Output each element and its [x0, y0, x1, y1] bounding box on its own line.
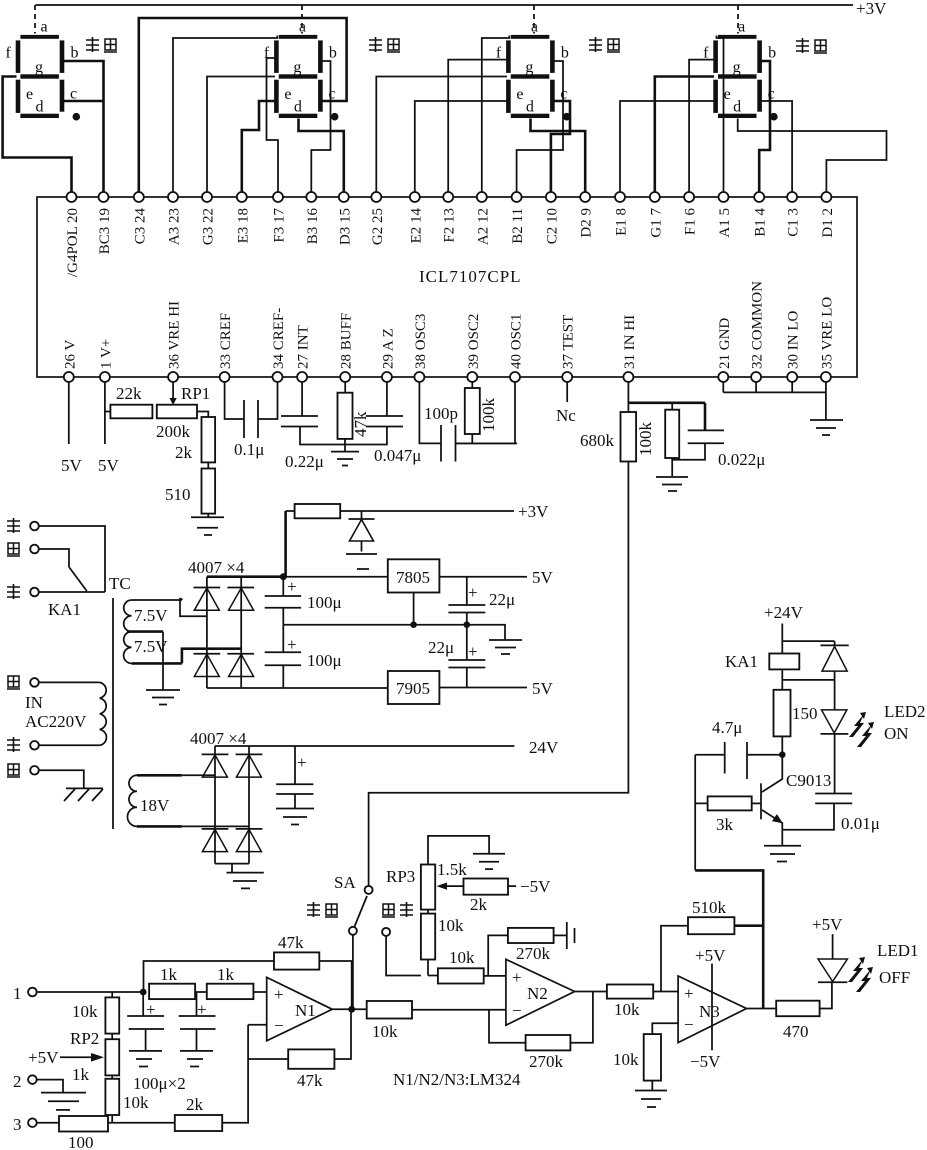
svg-text:5V: 5V: [61, 456, 83, 475]
potentiometer RP3: [386, 836, 489, 910]
+24V supply label: [764, 603, 804, 654]
wire pin24 to DS2 seg c: [139, 18, 347, 192]
capacitor 100u x2 second: [133, 992, 216, 1093]
svg-text:N1/N2/N3:LM324: N1/N2/N3:LM324: [393, 1070, 521, 1089]
wire pin22 to DS2 seg g: [207, 77, 275, 193]
svg-text:100μ: 100μ: [307, 593, 342, 612]
ground below zener: [346, 554, 377, 569]
svg-text:0.1μ: 0.1μ: [234, 440, 264, 459]
IC U1 bottom pin 35 (VRE LO): [819, 297, 835, 382]
svg-text:TC: TC: [109, 574, 131, 593]
IC U1 bottom pin 36 (VRE HI): [167, 301, 183, 382]
wire pin1 V+ down: [98, 382, 120, 475]
svg-text:+: +: [287, 635, 297, 654]
LED1 lightning arrows: [848, 957, 873, 992]
svg-text:D2 9: D2 9: [579, 208, 595, 238]
IC U1 top pin 19 (BC3): [97, 192, 113, 254]
op-amp N2: [506, 959, 575, 1025]
IC U1 top pin 17 (F3): [272, 192, 288, 243]
svg-text:+: +: [297, 753, 307, 772]
wire pin26 V- down: [61, 382, 83, 475]
svg-text:B3 16: B3 16: [305, 208, 321, 245]
svg-text:N2: N2: [527, 984, 548, 1003]
capacitor 0.022u: [672, 403, 765, 469]
svg-text:4.7μ: 4.7μ: [712, 718, 742, 737]
wire DS3 seg d to pin9: [531, 119, 586, 193]
capacitor 0.22u: [281, 382, 345, 471]
svg-text:10k: 10k: [123, 1093, 149, 1112]
svg-text:D3 15: D3 15: [337, 208, 353, 245]
chassis ground symbol: [64, 788, 103, 801]
svg-text:+5V: +5V: [695, 946, 726, 965]
svg-text:E1 8: E1 8: [614, 208, 630, 236]
resistor 10k below RP3: [421, 910, 464, 976]
potentiometer RP1: [156, 382, 210, 441]
svg-text:100: 100: [68, 1133, 94, 1150]
svg-text:N1: N1: [295, 1001, 316, 1020]
IC U1 top pin 7 (G1): [648, 192, 664, 238]
flyback diode VD: [782, 641, 848, 680]
IC U1 bottom pin 28 (BUFF): [339, 313, 355, 382]
svg-text:3k: 3k: [716, 815, 734, 834]
resistor 47k on pin28 BUFF: [338, 382, 371, 452]
resistor 22k: [105, 384, 152, 418]
svg-text:510: 510: [165, 485, 191, 504]
svg-text:−5V: −5V: [690, 1052, 721, 1071]
svg-text:RP1: RP1: [181, 384, 210, 403]
resistor 270k bottom N2: [489, 992, 593, 1072]
IC U1 bottom pin 27 (INT): [296, 325, 312, 382]
wire pin40 OSC1 down: [456, 382, 516, 443]
IC U1 top pin 25 (G2): [370, 192, 386, 245]
ground below 100k IN HI: [656, 477, 688, 491]
svg-text:2k: 2k: [175, 443, 193, 462]
resistor 270k top N2: [488, 928, 567, 976]
resistor 470: [747, 982, 832, 1041]
svg-text:150: 150: [792, 704, 818, 723]
LED1: [812, 915, 919, 987]
svg-text:KA1: KA1: [725, 652, 758, 671]
svg-text:38 OSC3: 38 OSC3: [413, 314, 429, 369]
terminal 1: [13, 984, 143, 1003]
svg-text:+: +: [468, 642, 478, 661]
IC U1 bottom pin 39 (OSC2): [466, 314, 482, 382]
resistor 1k second: [195, 965, 267, 999]
wire DS4 seg c to pin3: [761, 101, 792, 192]
LED2 lightning arrows: [849, 712, 874, 747]
resistor 2k (vertical): [175, 412, 215, 463]
resistor 100k oscillator: [465, 382, 498, 443]
svg-text:/G4POL 20: /G4POL 20: [65, 208, 81, 277]
svg-text:B2 11: B2 11: [510, 208, 526, 244]
wire DS1 seg g to pin20: [3, 77, 72, 193]
LED2: [821, 680, 926, 794]
IC U1 top pin 22 (G3): [201, 192, 217, 245]
svg-text:+: +: [197, 1000, 207, 1019]
resistor 3k: [695, 755, 761, 834]
ground above RP3: [473, 854, 505, 869]
ground below bridge B2: [227, 864, 264, 889]
svg-text:24V: 24V: [529, 738, 559, 757]
svg-text:510k: 510k: [692, 898, 727, 917]
regulator 7805: [283, 559, 553, 624]
label shiwei: [589, 37, 620, 52]
svg-text:+: +: [512, 968, 522, 987]
svg-text:29 A Z: 29 A Z: [380, 328, 396, 369]
svg-text:100μ×2: 100μ×2: [133, 1074, 186, 1093]
mid rail common: [283, 621, 505, 640]
svg-text:KA1: KA1: [48, 600, 81, 619]
terminal zhong (neutral): [7, 737, 39, 752]
svg-text:27 INT: 27 INT: [296, 325, 312, 369]
svg-text:10k: 10k: [72, 1002, 98, 1021]
svg-text:OFF: OFF: [879, 968, 910, 987]
svg-text:31 IN HI: 31 IN HI: [622, 315, 638, 369]
svg-text:100p: 100p: [424, 404, 458, 423]
IC U1 top pin 16 (B3): [305, 192, 321, 244]
resistor 510 (vertical): [165, 462, 215, 517]
svg-text:+3V: +3V: [518, 502, 549, 521]
svg-text:+3V: +3V: [856, 0, 887, 18]
svg-text:A1 5: A1 5: [717, 208, 733, 238]
resistor 10k N1 to N2: [367, 1001, 506, 1041]
svg-text:47k: 47k: [351, 411, 370, 437]
IC U1 bottom pin 33 (CREF): [218, 313, 234, 382]
svg-text:+5V: +5V: [28, 1048, 59, 1067]
zener rail resistor to +3V: [286, 502, 549, 577]
svg-text:10k: 10k: [372, 1022, 398, 1041]
svg-text:26 V: 26 V: [62, 340, 78, 369]
RP3 wiper with resistor 2k: [437, 877, 552, 914]
ground below 47k: [331, 452, 359, 466]
svg-text:F2 13: F2 13: [442, 208, 458, 243]
terminal 2 with ground: [13, 1072, 86, 1110]
svg-text:IN: IN: [25, 693, 43, 712]
svg-text:100k: 100k: [636, 422, 655, 457]
svg-text:47k: 47k: [297, 1071, 323, 1090]
resistor 100: [59, 1116, 175, 1150]
junction node bridge output: [280, 573, 287, 580]
label baiwei: [369, 37, 400, 52]
svg-text:2k: 2k: [470, 895, 488, 914]
op-amp N1: [248, 977, 367, 1040]
wire DS2 seg d to pin15: [299, 119, 344, 193]
transformer secondary 18V coil: [127, 775, 181, 826]
svg-text:0.22μ: 0.22μ: [285, 452, 324, 471]
capacitor 100u lower: [265, 625, 342, 688]
svg-text:+5V: +5V: [812, 915, 843, 934]
svg-text:N3: N3: [699, 1002, 720, 1021]
svg-text:40 OSC1: 40 OSC1: [509, 314, 525, 369]
svg-text:2k: 2k: [186, 1095, 204, 1114]
IC U1 top pin 4 (B1): [753, 192, 769, 237]
resistor 10k input chain bottom: [105, 1075, 149, 1122]
IC U1 top pin 6 (F1): [683, 192, 699, 235]
relay contact terminal zong: [7, 518, 105, 592]
center tap to ground: [127, 632, 180, 705]
IC U1 bottom pin 31 (IN HI): [622, 315, 638, 382]
svg-text:RP3: RP3: [386, 867, 415, 886]
IC U1 bottom pin 37 (TEST): [561, 315, 577, 382]
svg-text:37 TEST: 37 TEST: [561, 315, 577, 369]
svg-text:C9013: C9013: [786, 771, 831, 790]
IC U1 top pin 9 (D2): [579, 192, 595, 238]
svg-text:F1 6: F1 6: [683, 208, 699, 236]
svg-text:1.5k: 1.5k: [437, 860, 467, 879]
+3V top rail: [36, 0, 888, 18]
svg-text:28 BUFF: 28 BUFF: [339, 313, 355, 369]
svg-text:34 CREF-: 34 CREF-: [271, 308, 287, 369]
capacitor 24V filter: [276, 746, 313, 809]
transformer primary winding AC220V: [39, 682, 107, 745]
svg-text:−: −: [274, 1016, 284, 1035]
potentiometer RP2: [28, 1029, 119, 1084]
relay KA1 switch blade: [48, 567, 87, 619]
svg-text:32 COMMON: 32 COMMON: [750, 281, 766, 369]
svg-text:30 IN LO: 30 IN LO: [786, 311, 802, 369]
transistor C9013: [761, 755, 831, 830]
transformer TC core: [109, 574, 131, 829]
op-amp N3: [678, 946, 746, 1071]
resistor 10k to ground N3: [613, 1023, 678, 1090]
svg-text:22μ: 22μ: [428, 638, 454, 657]
wire pin12 to DS3 seg a: [482, 36, 510, 193]
ground below transistor: [764, 830, 801, 862]
feedback wire from N3 output: [695, 803, 763, 1008]
resistor 47k bottom feedback N1: [248, 1009, 351, 1090]
IC U1 top pin 13 (F2): [442, 192, 458, 243]
switch SA: [334, 873, 373, 1009]
svg-text:0.022μ: 0.022μ: [718, 450, 765, 469]
svg-text:100k: 100k: [479, 398, 498, 433]
svg-text:35 VRE LO: 35 VRE LO: [819, 297, 835, 369]
IC U1 top pin 24 (C3): [132, 192, 148, 244]
wire pin17 to DS2 seg f: [267, 58, 279, 192]
resistor 10k input chain top: [72, 992, 119, 1039]
resistor 1k first: [149, 965, 195, 999]
svg-text:+: +: [468, 583, 478, 602]
IC U1 ICL7107CPL body: [37, 197, 857, 377]
svg-text:+: +: [274, 985, 284, 1004]
ground below 10k N3: [635, 1091, 667, 1108]
label celiang (measure): [307, 902, 338, 917]
IC U1 top pin 10 (C2): [544, 192, 560, 244]
resistor 2k horizontal: [175, 1025, 248, 1131]
ground below 510: [191, 517, 224, 535]
svg-text:+: +: [287, 577, 297, 596]
capacitor 4.7u: [695, 718, 782, 779]
bridge rectifier B1 4007x4: [180, 558, 283, 688]
svg-text:1k: 1k: [217, 965, 235, 984]
svg-text:RP2: RP2: [70, 1029, 99, 1048]
wire pin5 to DS4 seg a: [717, 36, 724, 193]
svg-text:5V: 5V: [532, 679, 554, 698]
wire pin10 to DS3 seg c: [551, 101, 570, 192]
terminal di (earth): [7, 764, 84, 788]
IC U1 top pin 23 (A3): [167, 192, 183, 245]
resistor 510k feedback N3: [661, 898, 763, 992]
svg-text:F3 17: F3 17: [272, 208, 288, 243]
resistor 10k N2 to N3: [575, 985, 679, 1020]
svg-text:LED2: LED2: [884, 702, 926, 721]
IC U1 bottom pin 21 (GND): [717, 318, 733, 382]
resistor 10k to N2 plus: [428, 948, 506, 984]
svg-text:BC3 19: BC3 19: [97, 208, 113, 254]
IC U1 top pin 5 (A1): [717, 192, 733, 238]
svg-text:SA: SA: [334, 873, 356, 892]
pin37 TEST Nc: [556, 382, 576, 425]
svg-text:−: −: [512, 1001, 522, 1020]
wire pin18 to DS2 seg e: [242, 101, 275, 192]
svg-text:−5V: −5V: [520, 877, 551, 896]
wire pin14 to DS3 seg e: [415, 101, 507, 192]
resistor 150: [774, 690, 818, 755]
svg-text:C3 24: C3 24: [132, 208, 148, 245]
display DS3 tens digit: [496, 5, 571, 120]
relay contact terminal gao: [7, 543, 69, 567]
svg-text:A2 12: A2 12: [475, 208, 491, 245]
svg-text:Nc: Nc: [556, 406, 576, 425]
svg-text:ON: ON: [884, 724, 909, 743]
svg-text:4007 ×4: 4007 ×4: [188, 558, 245, 577]
IC U1 bottom pin 34 (CREF-): [271, 308, 287, 382]
svg-text:100μ: 100μ: [307, 651, 342, 670]
svg-text:10k: 10k: [613, 1050, 639, 1069]
svg-text:7.5V: 7.5V: [134, 606, 168, 625]
junction node N1 output: [348, 1006, 355, 1013]
svg-text:C1 3: C1 3: [786, 208, 802, 237]
svg-text:1k: 1k: [72, 1065, 90, 1084]
wire pin8 to DS4 seg e: [620, 101, 714, 192]
capacitor 22u lower: [428, 625, 485, 688]
svg-text:36 VRE HI: 36 VRE HI: [167, 301, 183, 369]
svg-text:−: −: [684, 1015, 694, 1034]
capacitor 100u upper: [265, 577, 342, 625]
24V rail: [215, 738, 559, 757]
IC U1 top pin 12 (A2): [475, 192, 491, 245]
svg-text:G3 22: G3 22: [201, 208, 217, 245]
svg-text:10k: 10k: [614, 1000, 640, 1019]
capacitor 100p: [419, 382, 517, 462]
IC U1 bottom pin 40 (OSC1): [509, 314, 525, 382]
capacitor 100u x2 first: [127, 992, 164, 1067]
wire pin7 to DS4 seg g: [655, 77, 714, 193]
svg-text:G2 25: G2 25: [370, 208, 386, 245]
svg-text:2: 2: [13, 1072, 22, 1091]
label qianwei: [86, 37, 117, 52]
ground below 24V cap: [276, 809, 314, 825]
IC U1 top pin 11 (B2): [510, 192, 526, 244]
relay contact terminal di: [7, 584, 105, 599]
junction node collector: [779, 751, 786, 758]
svg-text:0.047μ: 0.047μ: [374, 446, 421, 465]
svg-text:LED1: LED1: [877, 941, 919, 960]
svg-text:47k: 47k: [278, 933, 304, 952]
svg-text:0.01μ: 0.01μ: [841, 814, 880, 833]
svg-text:E3 18: E3 18: [235, 208, 251, 243]
svg-text:1k: 1k: [160, 965, 178, 984]
resistor 47k top feedback N1: [144, 933, 352, 1009]
bus pins 21,32,30,35 to ground: [723, 382, 826, 420]
capacitor 0.1u: [225, 382, 278, 459]
wire IN HI down to SA switch: [369, 462, 629, 886]
wire pin6 to DS4 seg f: [689, 60, 714, 192]
svg-text:22μ: 22μ: [489, 590, 515, 609]
svg-text:G1 7: G1 7: [648, 208, 664, 238]
transformer secondary 7.5V coil 2: [124, 632, 182, 664]
display DS1 thousands digit: [6, 5, 81, 120]
svg-text:1: 1: [13, 984, 22, 1003]
wire pin25 to DS3 seg g: [376, 77, 507, 193]
svg-text:470: 470: [783, 1022, 809, 1041]
ground below pin35: [810, 420, 843, 435]
svg-text:E2 14: E2 14: [408, 208, 424, 244]
wire DS4 seg d to pin2: [738, 119, 887, 193]
svg-text:1 V+: 1 V+: [98, 339, 114, 369]
svg-text:D1 2: D1 2: [820, 208, 836, 238]
display DS2 hundreds digit: [264, 5, 339, 120]
wire pin4 to DS4 seg b: [759, 61, 770, 192]
terminal 3: [13, 1115, 59, 1134]
svg-text:680k: 680k: [580, 431, 615, 450]
svg-text:39 OSC2: 39 OSC2: [466, 314, 482, 369]
svg-text:C2 10: C2 10: [544, 208, 560, 244]
svg-text:A3 23: A3 23: [167, 208, 183, 245]
label N1/N2/N3:LM324: [393, 1070, 521, 1089]
svg-text:B1 4: B1 4: [753, 208, 769, 237]
IC U1 bottom pin 1 (V+): [98, 339, 114, 382]
svg-text:10k: 10k: [438, 916, 464, 935]
small ground mark right of 270k: [567, 922, 575, 949]
IC U1 top pin 20 (/G4POL): [65, 192, 81, 277]
resistor 680k on pin31: [580, 382, 636, 462]
display DS4 units digit: [703, 5, 778, 120]
svg-text:270k: 270k: [529, 1052, 564, 1071]
svg-text:7905: 7905: [396, 679, 430, 698]
svg-text:21 GND: 21 GND: [717, 318, 733, 369]
resistor 100k on IN HI: [628, 403, 705, 476]
IC U1 bottom pin 30 (IN LO): [786, 311, 802, 382]
svg-text:3: 3: [13, 1115, 22, 1134]
IC U1 top pin 8 (E1): [614, 192, 630, 236]
label gewei: [796, 38, 827, 53]
IC U1 top pin 2 (D1): [820, 192, 836, 238]
svg-text:AC220V: AC220V: [25, 712, 87, 731]
wire pin11 to DS3 seg b: [517, 61, 563, 192]
svg-text:22k: 22k: [116, 384, 142, 403]
transformer secondary 7.5V coil 1: [124, 600, 182, 632]
wire pin16 to DS2 seg b: [311, 61, 330, 192]
svg-text:5V: 5V: [532, 568, 554, 587]
wire pin13 to DS3 seg f: [448, 60, 507, 192]
terminal xiang (phase): [7, 676, 87, 731]
IC U1 bottom pin 38 (OSC3): [413, 314, 429, 382]
IC U1 bottom pin 29 (A Z): [380, 328, 396, 382]
ground mid rail: [489, 640, 522, 654]
bridge rectifier B2 4007x4: [182, 729, 263, 864]
IC U1 bottom pin 26 (V): [62, 340, 78, 382]
svg-text:5V: 5V: [98, 456, 120, 475]
svg-text:7805: 7805: [396, 568, 430, 587]
capacitor 0.047u: [345, 382, 421, 465]
svg-text:+: +: [146, 1000, 156, 1019]
relay coil KA1: [725, 652, 799, 690]
svg-text:200k: 200k: [156, 422, 191, 441]
IC U1 bottom pin 32 (COMMON): [750, 281, 766, 382]
capacitor 0.01u: [782, 794, 880, 834]
IC U1 top pin 14 (E2): [408, 192, 424, 243]
wire DS1 seg b,c to pin19: [63, 61, 103, 192]
